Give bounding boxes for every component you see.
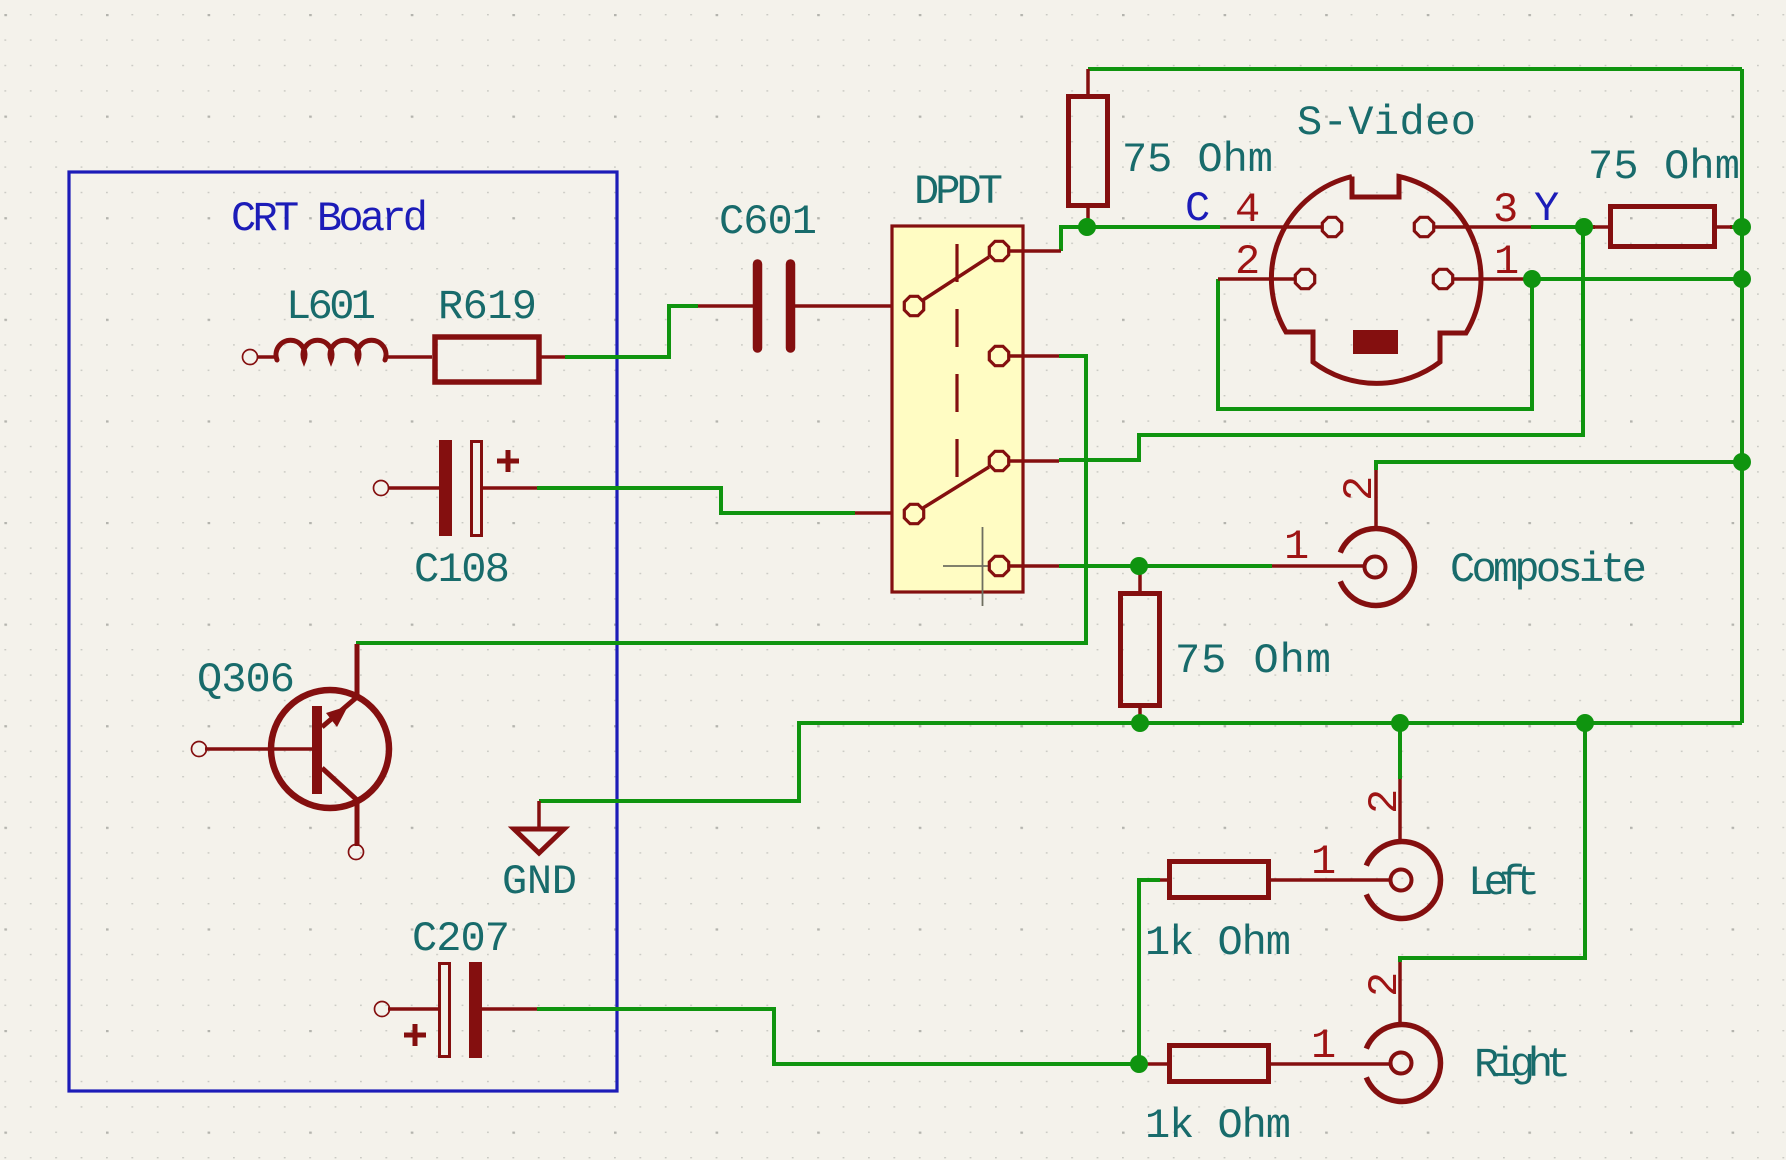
- svg-text:1k Ohm: 1k Ohm: [1145, 1102, 1291, 1150]
- wire Left RCA pin2: [1398, 723, 1402, 779]
- connector J3 Left RCA: [1366, 779, 1440, 919]
- capacitor C108: [374, 440, 538, 536]
- junction at ground bus / Left pin2: [1391, 714, 1409, 732]
- wire Composite pin2 to right bus: [1376, 462, 1742, 470]
- wire stub DPDT pinE: [855, 511, 903, 515]
- resistor R619: [435, 337, 565, 382]
- resistor R4 1k Ohm (left channel): [1160, 862, 1391, 898]
- svg-text:1: 1: [1311, 838, 1336, 886]
- svg-text:DPDT: DPDT: [914, 168, 1003, 216]
- connector J1 S-Video mini-DIN: [1271, 177, 1481, 384]
- svg-text:C108: C108: [414, 546, 510, 594]
- junction at ground bus / Right pin2 branch: [1576, 714, 1594, 732]
- lever pole2: [923, 467, 989, 508]
- junction at ground bus / middle resistor: [1131, 714, 1149, 732]
- wire resistor to right bus: [1730, 225, 1742, 229]
- connector J2 Composite RCA: [1272, 470, 1415, 606]
- inductor L601: [243, 340, 433, 364]
- ground GND: [514, 801, 564, 853]
- crosshair anchor: [943, 527, 1020, 606]
- wire top horizontal: [1088, 67, 1742, 71]
- svg-text:Q306: Q306: [197, 656, 295, 704]
- svg-text:75 Ohm: 75 Ohm: [1122, 136, 1273, 184]
- connector J4 Right RCA: [1366, 962, 1440, 1102]
- junction at Y net / right resistor left: [1575, 218, 1593, 236]
- svg-text:R619: R619: [438, 283, 537, 331]
- wire DPDT pinA to node: [1061, 227, 1088, 251]
- svg-text:Composite: Composite: [1450, 546, 1647, 594]
- wire C108 to DPDT: [537, 488, 855, 513]
- capacitor C601: [758, 264, 791, 348]
- svg-text:75 Ohm: 75 Ohm: [1588, 143, 1740, 191]
- resistor R3 75 Ohm (middle): [1121, 570, 1160, 723]
- lever pole1: [923, 257, 989, 300]
- S-Video pins: [1218, 217, 1532, 288]
- svg-text:2: 2: [1336, 476, 1384, 501]
- wire C207 to right resistor: [537, 1009, 1139, 1064]
- wire DPDT pinF to Composite pin1: [1059, 564, 1272, 568]
- wire net top bus: [539, 69, 1742, 801]
- pin circles: [904, 241, 1008, 575]
- resistor R5 1k Ohm (right channel): [1146, 1046, 1391, 1082]
- svg-text:4: 4: [1235, 186, 1260, 234]
- svg-text:1k Ohm: 1k Ohm: [1145, 919, 1291, 967]
- svg-text:Left: Left: [1468, 859, 1540, 907]
- svg-text:GND: GND: [502, 858, 577, 906]
- dashed link: [955, 244, 958, 490]
- svg-text:Right: Right: [1474, 1041, 1571, 1089]
- junction at audio node / 1k resistors: [1130, 1055, 1148, 1073]
- resistor R1 75 Ohm (top): [1069, 69, 1108, 227]
- wire DPDT pinD to Y net: [1059, 227, 1583, 460]
- transistor Q306: [192, 644, 390, 860]
- sheet CRT Board: [69, 172, 617, 1091]
- svg-text:1: 1: [1311, 1022, 1336, 1070]
- wire Right RCA pin2: [1400, 723, 1585, 962]
- wire gnd horizontal: [539, 723, 1742, 801]
- resistor R2 75 Ohm (right): [1593, 207, 1732, 247]
- svg-text:3: 3: [1493, 186, 1518, 234]
- svg-text:C207: C207: [412, 915, 510, 963]
- svg-text:C601: C601: [719, 198, 817, 246]
- wire node to S-Video pin4: [1088, 225, 1220, 229]
- wire 1k node vertical: [1139, 880, 1160, 1064]
- wire S-Video pin2 loop: [1218, 279, 1532, 409]
- svg-text:2: 2: [1361, 972, 1409, 997]
- svg-text:CRT Board: CRT Board: [231, 195, 428, 243]
- svg-text:C: C: [1185, 185, 1210, 233]
- junction at pin1 net / right bus: [1733, 270, 1751, 288]
- svg-text:S-Video: S-Video: [1297, 99, 1476, 147]
- svg-text:2: 2: [1361, 789, 1409, 814]
- wire DPDT pinC down across: [356, 356, 1086, 643]
- wire R619 to C601: [565, 306, 698, 357]
- switch SW1 DPDT: [892, 226, 1061, 606]
- svg-text:2: 2: [1235, 238, 1260, 286]
- junction at Composite pin2 / right bus: [1733, 453, 1751, 471]
- svg-text:L601: L601: [286, 283, 376, 331]
- capacitor C207: [375, 962, 538, 1058]
- wire pin1 node to right bus: [1532, 277, 1742, 281]
- svg-text:75 Ohm: 75 Ohm: [1175, 637, 1331, 685]
- svg-text:Y: Y: [1534, 185, 1559, 233]
- junction at right resistor / right bus: [1733, 218, 1751, 236]
- wire S-Video pin3 to resistor: [1531, 225, 1595, 229]
- wire right vertical: [1740, 69, 1744, 723]
- junction at C net / top resistor: [1078, 218, 1096, 236]
- junction at S-Video pin1: [1523, 270, 1541, 288]
- pin stubs: [1009, 251, 1061, 566]
- svg-text:1: 1: [1494, 238, 1519, 286]
- junction at Composite net / middle resistor: [1130, 557, 1148, 575]
- svg-text:1: 1: [1284, 523, 1309, 571]
